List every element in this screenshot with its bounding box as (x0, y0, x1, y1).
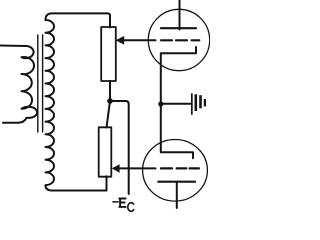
wire to ground (161, 103, 191, 105)
arrowhead tap on R2 (112, 164, 120, 173)
tube V2 grid (dashed) (161, 167, 199, 169)
label -Ec letter E (drawn) (119, 198, 125, 207)
resistor R2 (lower, box style) (99, 127, 112, 176)
label -Ec subscript C (drawn) (128, 203, 134, 212)
node junction dot B (158, 101, 163, 106)
wire R2 top lead (107, 101, 111, 128)
ground symbol (191, 93, 206, 114)
wire R1 bottom lead (109, 81, 111, 101)
tube V2 envelope (143, 140, 208, 202)
tube V1 grid (dashed) (161, 39, 199, 41)
wire tap arrow to V2 grid (119, 167, 156, 169)
resistor R1 (upper, box style) (101, 27, 116, 81)
arrowhead tap on R1 (116, 36, 125, 45)
tube V2 cathode lead down (176, 182, 178, 208)
wire bias branch to -Ec line (110, 101, 129, 194)
transformer T1 secondary winding with top lead to R1 and bottom lead to R2 (46, 13, 111, 190)
tube V1 envelope (148, 9, 209, 70)
transformer T1 core (38, 35, 43, 132)
tube V2 cathode (158, 181, 195, 183)
transformer T1 primary winding (3, 46, 37, 123)
tube V1 cathode with lead down (161, 47, 196, 104)
wire tap arrow to V1 grid (124, 39, 156, 41)
wire V2 plate lead from junction + plate with hook (161, 104, 193, 158)
node junction dot A (107, 98, 113, 104)
tube V1 plate lead (179, 0, 181, 30)
wire primary top lead (0, 45, 26, 48)
tube V1 plate (161, 27, 196, 29)
label -Ec minus sign (113, 201, 118, 203)
